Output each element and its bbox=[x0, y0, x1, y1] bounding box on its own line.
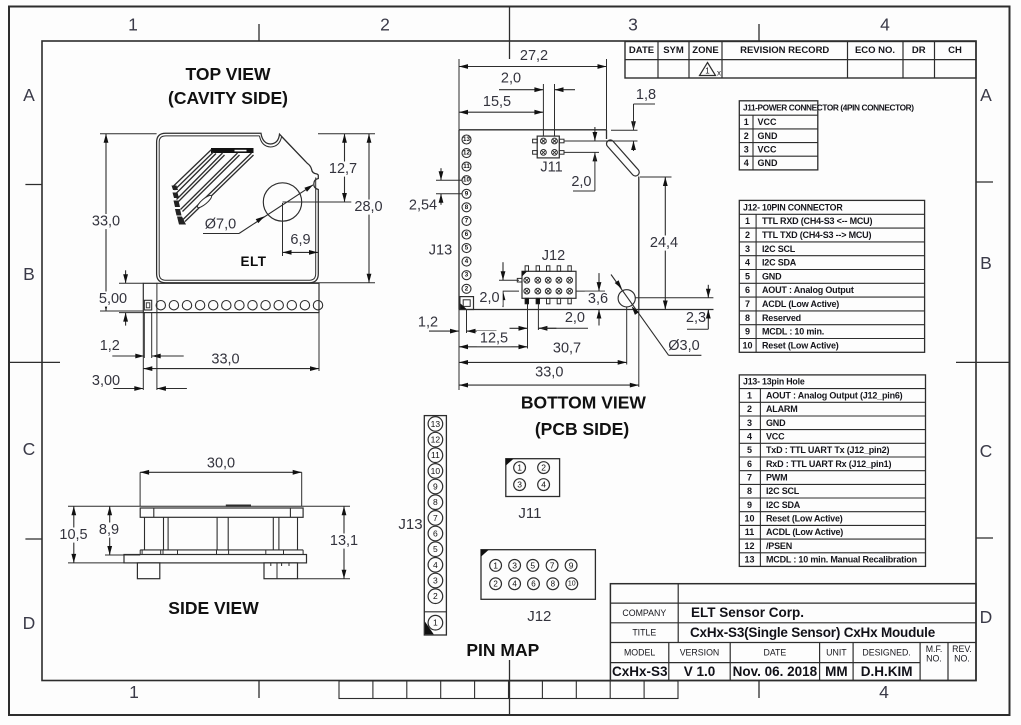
svg-text:2: 2 bbox=[745, 230, 750, 240]
svg-text:33,0: 33,0 bbox=[211, 352, 239, 368]
svg-text:12: 12 bbox=[431, 435, 441, 445]
svg-text:VCC: VCC bbox=[766, 432, 785, 442]
svg-text:13,1: 13,1 bbox=[330, 533, 358, 549]
svg-text:I2C SDA: I2C SDA bbox=[762, 258, 797, 268]
svg-text:/PSEN: /PSEN bbox=[766, 541, 792, 551]
svg-text:1: 1 bbox=[128, 15, 138, 35]
svg-text:D.H.KIM: D.H.KIM bbox=[861, 664, 913, 679]
svg-text:I2C SDA: I2C SDA bbox=[766, 500, 801, 510]
svg-text:6: 6 bbox=[747, 459, 752, 469]
svg-text:1: 1 bbox=[129, 682, 139, 702]
svg-text:30,7: 30,7 bbox=[553, 341, 581, 357]
svg-text:VCC: VCC bbox=[758, 117, 778, 127]
svg-text:1,2: 1,2 bbox=[100, 338, 120, 354]
svg-text:13: 13 bbox=[744, 555, 754, 565]
svg-text:1,8: 1,8 bbox=[636, 87, 656, 103]
svg-text:30,0: 30,0 bbox=[207, 456, 235, 472]
svg-text:I2C SCL: I2C SCL bbox=[766, 486, 800, 496]
svg-text:Nov. 06. 2018: Nov. 06. 2018 bbox=[733, 664, 818, 679]
svg-text:AOUT : Analog Output (J12_pin6: AOUT : Analog Output (J12_pin6) bbox=[766, 390, 903, 400]
svg-text:6: 6 bbox=[465, 231, 469, 238]
svg-text:12,7: 12,7 bbox=[329, 161, 357, 177]
svg-text:J11-POWER CONNECTOR (4PIN CONN: J11-POWER CONNECTOR (4PIN CONNECTOR) bbox=[743, 103, 914, 113]
svg-text:1: 1 bbox=[747, 390, 752, 400]
svg-text:7: 7 bbox=[747, 473, 752, 483]
svg-text:11: 11 bbox=[431, 450, 440, 460]
svg-text:5: 5 bbox=[530, 560, 535, 570]
svg-text:3: 3 bbox=[745, 244, 750, 254]
svg-text:ELT Sensor Corp.: ELT Sensor Corp. bbox=[691, 605, 804, 620]
svg-text:VERSION: VERSION bbox=[680, 648, 720, 658]
svg-text:6: 6 bbox=[745, 285, 750, 295]
svg-text:CH: CH bbox=[948, 45, 962, 56]
svg-text:C: C bbox=[23, 439, 36, 459]
svg-text:3: 3 bbox=[744, 144, 749, 154]
svg-text:4: 4 bbox=[745, 258, 750, 268]
svg-text:7: 7 bbox=[745, 299, 750, 309]
svg-text:10: 10 bbox=[744, 514, 754, 524]
svg-text:12: 12 bbox=[744, 541, 754, 551]
svg-text:2: 2 bbox=[433, 591, 438, 601]
svg-text:REV.: REV. bbox=[952, 644, 972, 654]
svg-text:B: B bbox=[980, 253, 992, 273]
svg-text:GND: GND bbox=[758, 131, 779, 141]
svg-text:3: 3 bbox=[747, 418, 752, 428]
svg-text:DATE: DATE bbox=[629, 45, 654, 56]
svg-text:8: 8 bbox=[745, 313, 750, 323]
svg-text:GND: GND bbox=[766, 418, 786, 428]
svg-text:4: 4 bbox=[465, 258, 469, 265]
svg-text:GND: GND bbox=[762, 271, 782, 281]
svg-text:6,9: 6,9 bbox=[290, 232, 310, 248]
svg-text:BOTTOM VIEW: BOTTOM VIEW bbox=[521, 393, 647, 413]
svg-text:J13- 13pin Hole: J13- 13pin Hole bbox=[743, 377, 805, 387]
svg-text:5: 5 bbox=[433, 544, 438, 554]
svg-text:SYM: SYM bbox=[663, 45, 684, 56]
svg-text:ECO NO.: ECO NO. bbox=[855, 45, 895, 56]
svg-text:PIN MAP: PIN MAP bbox=[466, 640, 539, 660]
svg-text:1: 1 bbox=[493, 560, 498, 570]
svg-text:5: 5 bbox=[745, 271, 750, 281]
svg-text:4: 4 bbox=[747, 432, 752, 442]
svg-text:PWM: PWM bbox=[766, 473, 787, 483]
svg-text:Reset (Low Active): Reset (Low Active) bbox=[762, 340, 839, 350]
svg-text:3: 3 bbox=[628, 15, 638, 35]
svg-text:J11: J11 bbox=[540, 160, 562, 176]
svg-text:2: 2 bbox=[541, 463, 546, 473]
svg-text:TTL RXD (CH4-S3 <-- MCU): TTL RXD (CH4-S3 <-- MCU) bbox=[762, 216, 872, 226]
svg-text:DESIGNED.: DESIGNED. bbox=[862, 648, 910, 658]
svg-text:3: 3 bbox=[433, 576, 438, 586]
svg-text:M.F.: M.F. bbox=[926, 644, 943, 654]
svg-text:Reset (Low Active): Reset (Low Active) bbox=[766, 514, 843, 524]
svg-text:V 1.0: V 1.0 bbox=[684, 664, 716, 679]
svg-text:ZONE: ZONE bbox=[692, 45, 718, 56]
svg-text:x: x bbox=[717, 69, 721, 78]
svg-text:(PCB SIDE): (PCB SIDE) bbox=[535, 419, 629, 439]
svg-text:8: 8 bbox=[747, 486, 752, 496]
svg-text:10: 10 bbox=[568, 580, 576, 587]
svg-text:REVISION RECORD: REVISION RECORD bbox=[740, 45, 829, 56]
svg-text:3: 3 bbox=[512, 560, 517, 570]
svg-text:2: 2 bbox=[747, 404, 752, 414]
svg-text:3,00: 3,00 bbox=[92, 373, 120, 389]
svg-text:2: 2 bbox=[744, 131, 749, 141]
svg-text:12: 12 bbox=[463, 150, 470, 157]
svg-text:TITLE: TITLE bbox=[632, 628, 656, 638]
svg-text:9: 9 bbox=[433, 482, 438, 492]
svg-text:10: 10 bbox=[463, 177, 470, 184]
svg-text:4: 4 bbox=[512, 579, 517, 588]
svg-text:1: 1 bbox=[705, 67, 710, 76]
svg-text:DATE: DATE bbox=[763, 648, 786, 658]
svg-text:RxD : TTL UART Rx (J12_pin1): RxD : TTL UART Rx (J12_pin1) bbox=[766, 459, 891, 469]
svg-text:13: 13 bbox=[463, 136, 470, 143]
svg-text:Reserved: Reserved bbox=[762, 313, 801, 323]
svg-text:Ø3,0: Ø3,0 bbox=[668, 338, 699, 354]
svg-text:1: 1 bbox=[433, 618, 438, 628]
svg-text:1: 1 bbox=[517, 463, 522, 473]
svg-text:2,0: 2,0 bbox=[501, 71, 521, 87]
svg-text:1,2: 1,2 bbox=[418, 315, 438, 331]
svg-text:13: 13 bbox=[431, 419, 441, 429]
svg-text:GND: GND bbox=[758, 158, 779, 168]
svg-text:ACDL (Low Active): ACDL (Low Active) bbox=[766, 527, 843, 537]
svg-text:2,54: 2,54 bbox=[409, 198, 437, 214]
svg-text:2,0: 2,0 bbox=[565, 310, 585, 326]
svg-text:AOUT : Analog Output: AOUT : Analog Output bbox=[762, 285, 854, 295]
svg-text:I2C SCL: I2C SCL bbox=[762, 244, 796, 254]
svg-text:8,9: 8,9 bbox=[99, 522, 119, 538]
svg-text:9: 9 bbox=[745, 327, 750, 337]
svg-text:COMPANY: COMPANY bbox=[622, 608, 666, 618]
svg-text:SIDE VIEW: SIDE VIEW bbox=[168, 598, 259, 618]
svg-text:CxHx-S3(Single Sensor) CxHx Mo: CxHx-S3(Single Sensor) CxHx Moudule bbox=[690, 625, 936, 640]
svg-text:MODEL: MODEL bbox=[624, 648, 655, 658]
svg-text:ACDL (Low Active): ACDL (Low Active) bbox=[762, 299, 839, 309]
svg-text:10,5: 10,5 bbox=[59, 527, 87, 543]
svg-text:3: 3 bbox=[465, 272, 469, 279]
svg-text:(CAVITY SIDE): (CAVITY SIDE) bbox=[168, 88, 288, 108]
svg-text:C: C bbox=[980, 441, 993, 461]
svg-text:NO.: NO. bbox=[926, 654, 942, 664]
svg-text:TTL TXD (CH4-S3 --> MCU): TTL TXD (CH4-S3 --> MCU) bbox=[762, 230, 871, 240]
svg-text:7: 7 bbox=[433, 513, 438, 523]
svg-text:5,00: 5,00 bbox=[99, 291, 127, 307]
svg-text:2: 2 bbox=[380, 15, 390, 35]
svg-text:6: 6 bbox=[531, 579, 536, 588]
svg-text:9: 9 bbox=[747, 500, 752, 510]
svg-text:A: A bbox=[23, 85, 35, 105]
svg-text:ALARM: ALARM bbox=[766, 404, 798, 414]
svg-text:28,0: 28,0 bbox=[354, 199, 382, 215]
svg-text:10: 10 bbox=[742, 340, 752, 350]
svg-text:J12: J12 bbox=[542, 248, 565, 264]
svg-text:J12- 10PIN CONNECTOR: J12- 10PIN CONNECTOR bbox=[743, 202, 843, 212]
svg-text:D: D bbox=[980, 607, 993, 627]
svg-text:NO.: NO. bbox=[954, 654, 970, 664]
svg-text:Ø7,0: Ø7,0 bbox=[205, 217, 236, 233]
svg-text:MM: MM bbox=[825, 664, 848, 679]
svg-text:2,3: 2,3 bbox=[686, 310, 706, 326]
svg-text:VCC: VCC bbox=[758, 144, 778, 154]
svg-text:8: 8 bbox=[465, 204, 469, 211]
svg-text:4: 4 bbox=[744, 158, 749, 168]
svg-text:ELT: ELT bbox=[241, 254, 267, 269]
svg-text:3,6: 3,6 bbox=[588, 291, 608, 307]
svg-text:27,2: 27,2 bbox=[520, 48, 548, 64]
svg-text:12,5: 12,5 bbox=[480, 331, 508, 347]
svg-text:UNIT: UNIT bbox=[826, 648, 847, 658]
svg-text:A: A bbox=[980, 85, 992, 105]
svg-text:4: 4 bbox=[541, 480, 546, 490]
svg-text:1: 1 bbox=[744, 117, 749, 127]
svg-text:J13: J13 bbox=[398, 516, 422, 533]
svg-text:4: 4 bbox=[880, 15, 890, 35]
svg-text:2,0: 2,0 bbox=[571, 174, 591, 190]
svg-text:5: 5 bbox=[465, 245, 469, 252]
svg-text:24,4: 24,4 bbox=[650, 235, 678, 251]
svg-text:33,0: 33,0 bbox=[535, 365, 563, 381]
svg-text:J13: J13 bbox=[429, 243, 452, 259]
svg-text:J12: J12 bbox=[527, 608, 551, 625]
svg-text:9: 9 bbox=[465, 190, 469, 197]
svg-text:4: 4 bbox=[879, 682, 889, 702]
svg-text:2: 2 bbox=[465, 285, 469, 292]
svg-text:D: D bbox=[23, 613, 36, 633]
svg-text:1: 1 bbox=[745, 216, 750, 226]
svg-text:TOP VIEW: TOP VIEW bbox=[186, 64, 271, 84]
svg-text:15,5: 15,5 bbox=[483, 94, 511, 110]
svg-text:33,0: 33,0 bbox=[92, 214, 120, 230]
svg-text:2: 2 bbox=[493, 579, 498, 588]
svg-text:CxHx-S3: CxHx-S3 bbox=[612, 664, 668, 679]
svg-text:8: 8 bbox=[551, 579, 556, 588]
svg-text:10: 10 bbox=[431, 466, 441, 476]
svg-text:4: 4 bbox=[433, 560, 438, 570]
svg-text:J11: J11 bbox=[518, 505, 541, 522]
svg-text:11: 11 bbox=[463, 163, 470, 170]
svg-text:8: 8 bbox=[433, 497, 438, 507]
svg-text:2,0: 2,0 bbox=[479, 290, 499, 306]
svg-text:11: 11 bbox=[745, 527, 755, 537]
svg-text:TxD : TTL UART Tx (J12_pin2): TxD : TTL UART Tx (J12_pin2) bbox=[766, 445, 889, 455]
svg-text:7: 7 bbox=[465, 217, 469, 224]
svg-text:MCDL : 10 min. Manual Recalibr: MCDL : 10 min. Manual Recalibration bbox=[766, 555, 917, 565]
svg-text:9: 9 bbox=[569, 560, 574, 570]
svg-text:7: 7 bbox=[550, 560, 555, 570]
svg-text:MCDL : 10 min.: MCDL : 10 min. bbox=[762, 327, 824, 337]
svg-text:B: B bbox=[23, 264, 35, 284]
svg-text:3: 3 bbox=[517, 480, 522, 490]
svg-text:DR: DR bbox=[912, 45, 926, 56]
svg-text:5: 5 bbox=[747, 445, 752, 455]
svg-text:6: 6 bbox=[433, 529, 438, 539]
